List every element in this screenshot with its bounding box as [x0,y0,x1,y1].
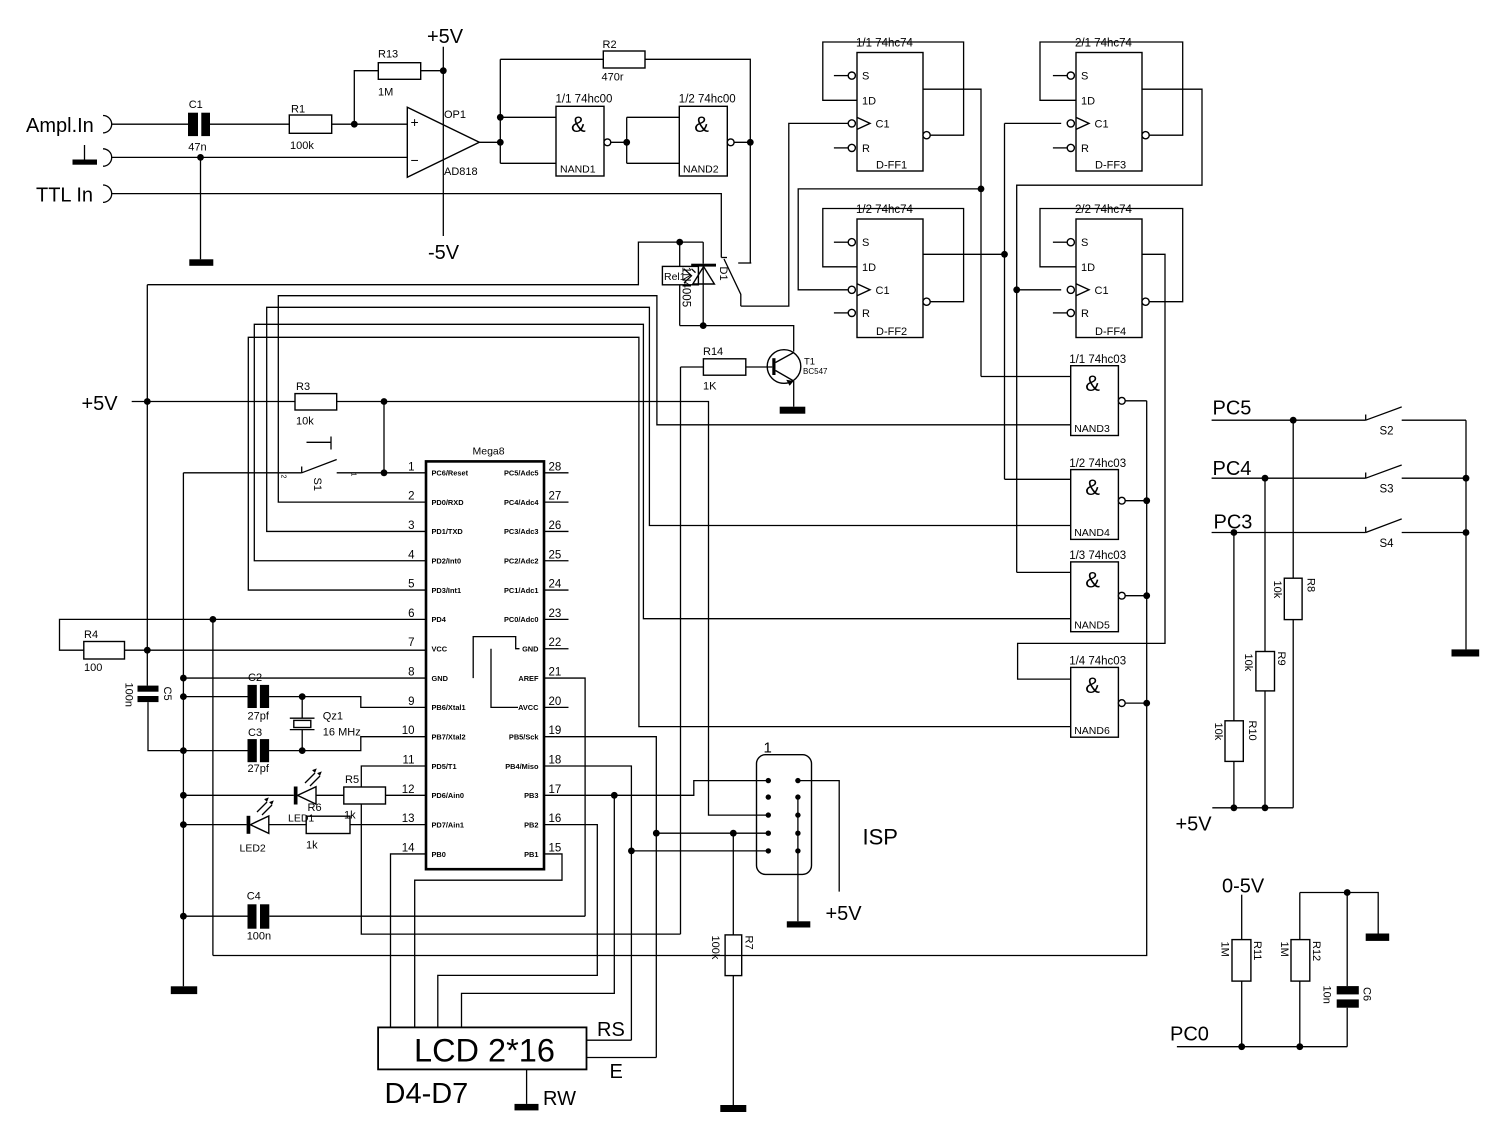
wire +5V rail to relay top [147,242,703,285]
node junction NAND2 out [747,139,754,146]
node junction reset pullup [381,398,388,405]
node E label [610,1061,623,1083]
svg-text:R: R [1081,308,1089,320]
resistor R1 100k [289,104,331,153]
svg-text:PD3/Int1: PD3/Int1 [432,586,462,595]
capacitor C4 100n [247,891,271,943]
wire PD4 vertical to NAND common [212,619,214,955]
node junction Q1 [978,186,985,193]
node junction SCK ISP [653,830,660,837]
svg-text:1/1 74hc03: 1/1 74hc03 [1069,354,1126,366]
wire NAND4 output [1125,500,1147,502]
relay Rel1 coil box [662,266,698,284]
wire C3 left to rail [183,750,247,752]
wire D-FF2 R stub [834,312,848,314]
svg-text:C1: C1 [876,118,890,130]
node PC0 label [1170,1024,1209,1046]
svg-text:GND: GND [522,645,539,654]
svg-text:10k: 10k [296,416,314,428]
svg-text:R: R [862,308,870,320]
svg-text:GND: GND [432,674,449,683]
svg-text:C3: C3 [248,727,262,739]
svg-text:9: 9 [408,696,414,708]
wire pin23 stub [544,618,569,620]
wire PC0 row [1177,1046,1347,1048]
svg-text:7: 7 [408,637,414,649]
svg-text:10k: 10k [1242,654,1254,672]
node junction NAND6 out [1143,700,1150,707]
wire PD3 pin5 bus to NAND6 input [248,337,1070,726]
svg-text:&: & [1085,567,1100,592]
ground minus input [189,259,213,266]
resistor R13 1M [378,49,421,99]
svg-text:R1: R1 [291,104,305,116]
svg-text:D-FF4: D-FF4 [1095,326,1126,338]
resistor R9 10k [1242,478,1287,808]
svg-text:100: 100 [84,662,102,674]
svg-text:14: 14 [402,842,415,854]
svg-text:PB5/Sck: PB5/Sck [509,732,539,741]
wire D-FF1 R stub [834,147,848,149]
svg-text:ISP: ISP [863,825,898,850]
svg-text:NAND6: NAND6 [1074,725,1110,737]
wire PB2 pin16 to LCD D6 [438,825,598,1028]
svg-text:PD7/Ain1: PD7/Ain1 [432,820,464,829]
transistor T1 BC547 [767,350,828,386]
wire D-FF1 Q to D-FF2 clock and NAND3 [798,89,1070,376]
wire pin27 stub [544,501,569,503]
svg-text:15: 15 [549,842,562,854]
svg-text:+5V: +5V [427,26,464,48]
svg-text:+5V: +5V [1176,814,1213,836]
node junction VCC/C5 [144,647,151,654]
gate NAND3 1/1 74hc03 [1069,354,1126,436]
svg-text:NAND2: NAND2 [683,164,719,176]
svg-text:10: 10 [402,725,415,737]
gate NAND2 1/2 74hc00 [679,94,736,177]
svg-text:C1: C1 [1095,118,1109,130]
wire minus input to op-amp [112,156,408,158]
svg-text:S2: S2 [1380,426,1394,438]
svg-text:D4-D7: D4-D7 [385,1078,469,1110]
svg-text:2/1 74hc74: 2/1 74hc74 [1075,38,1133,50]
wire LCD RW to ground [526,1069,528,1104]
svg-text:100k: 100k [709,936,721,960]
wire pin25 stub [544,560,569,562]
wire PD0 pin2 bus to NAND3 input [278,296,1070,502]
svg-text:13: 13 [402,813,415,825]
node PC5 label [1213,398,1252,420]
wire D-FF2 Q to D-FF3 clock and NAND4 [923,123,1071,479]
wire ISP right column ground [797,797,799,921]
ground LCD RW [515,1104,539,1111]
svg-text:&: & [1085,475,1100,500]
wire R2 left [500,58,603,60]
wire R3 to +5V rail right [337,402,769,816]
switch S4 [1366,519,1402,550]
svg-text:LCD 2*16: LCD 2*16 [414,1033,555,1069]
wire LCD RS [587,1039,632,1041]
svg-text:2: 2 [408,491,414,503]
node ISP label [863,825,898,850]
svg-text:R5: R5 [345,774,359,786]
svg-text:VCC: VCC [432,645,448,654]
node junction R13/+5V [440,67,447,74]
resistor R2 470r [602,39,646,84]
diode D1 1N4005 [680,242,730,326]
switch S1 reset [280,437,357,491]
svg-text:17: 17 [549,784,562,796]
svg-text:PC2/Adc2: PC2/Adc2 [504,557,539,566]
svg-text:PB4/Miso: PB4/Miso [505,762,539,771]
node junction SCK R7 [730,830,737,837]
node +5V top [427,26,464,48]
wire relay arm to D-FF1 clock [741,123,848,306]
node -5V [428,242,460,264]
node junction rail LED1 [180,792,187,799]
wire switches common to ground [1465,420,1467,649]
pin ISP left row 850.9 [766,848,771,853]
node junction MISO ISP [628,848,635,855]
wire op-amp output to NAND1 inputs [479,59,556,163]
wire pin28 stub [544,472,569,474]
svg-text:20: 20 [549,696,562,708]
svg-text:TTL In: TTL In [36,185,93,207]
svg-text:5: 5 [408,579,414,591]
display LCD 2x16 [378,1027,586,1069]
svg-text:1N4005: 1N4005 [680,267,692,307]
wire pin26 stub [544,530,569,532]
capacitor C6 10n [1321,893,1373,1047]
svg-text:PC4/Adc4: PC4/Adc4 [504,498,539,507]
svg-text:S1: S1 [311,478,323,491]
wire R14 left from PD5 [681,366,704,368]
svg-text:1/2 74hc03: 1/2 74hc03 [1069,458,1126,470]
svg-text:27pf: 27pf [248,763,270,775]
wire R14 to base [746,366,773,368]
svg-text:4: 4 [408,549,415,561]
svg-text:1M: 1M [1278,942,1290,957]
node junction Q3 [1013,286,1020,293]
wire D-FF4 feedback Qbar to 1D [1040,209,1183,302]
wire D-FF4 Q to NAND6 [1018,254,1165,679]
svg-text:C2: C2 [248,672,262,684]
wire +5V rail switches [1212,807,1293,809]
svg-text:S: S [862,237,869,249]
wire D-FF2 feedback Qbar to 1D [823,209,964,302]
node junction crystal bottom [299,747,306,754]
svg-text:PD5/T1: PD5/T1 [432,762,457,771]
node junction R1/R13 [351,121,358,128]
node junction pin1 [381,469,388,476]
svg-text:PC1/Adc1: PC1/Adc1 [504,586,539,595]
svg-text:S: S [1081,237,1088,249]
gate NAND5 1/3 74hc03 [1069,550,1126,632]
svg-text:AVCC: AVCC [518,703,539,712]
resistor R11 1M [1219,895,1264,1047]
svg-text:&: & [1085,673,1100,698]
wire C5 bottom to ground rail [148,702,183,751]
wire rail to LED2 [183,824,246,826]
svg-text:1/2 74hc00: 1/2 74hc00 [679,94,736,106]
svg-text:28: 28 [549,461,562,473]
switch S3 [1366,465,1402,496]
svg-text:R7: R7 [743,936,755,950]
microcontroller U1 Mega8 [402,446,562,870]
node junction op out [497,139,504,146]
node 0-5V label [1222,876,1265,898]
wire NAND outputs common vertical to PD4 [213,401,1147,956]
wire C1 to R1 [210,123,289,125]
svg-text:R6: R6 [308,802,322,814]
node junction S3 right [1463,475,1470,482]
svg-text:RW: RW [543,1088,576,1110]
resistor R8 10k [1271,420,1317,808]
wire D-FF4 S stub [1053,241,1067,243]
svg-text:RS: RS [597,1019,625,1041]
svg-text:24: 24 [549,579,562,591]
node TTL In label [36,185,93,207]
wire D-FF2 S stub [834,241,848,243]
wire XTAL2 pin10 to C3 [269,737,426,751]
wire PD2 pin4 bus to NAND5 input [254,324,1070,618]
wire R5 to pin12 [386,794,427,796]
wire R6 to pin13 [350,824,426,826]
node +5V ISP label [826,903,863,925]
svg-text:PC0: PC0 [1170,1024,1209,1046]
ground R12/C6 [1366,934,1390,941]
node junction MOSI D7 [611,792,618,799]
svg-text:PB1: PB1 [524,850,538,859]
wire PC5 row [1212,419,1466,421]
svg-text:1D: 1D [862,262,876,274]
svg-text:8: 8 [408,667,414,679]
wire PD4 pin6 to R4 wrap [60,619,427,650]
d-flip-flop D-FF4 2/2 74hc74 [1067,204,1149,338]
node junction PC5 R8 [1290,417,1297,424]
svg-text:100n: 100n [123,683,135,707]
resistor R14 1K [703,346,746,393]
svg-text:D-FF2: D-FF2 [876,326,907,338]
wire PC4 row [1212,477,1466,479]
node junction PD4 [210,616,217,623]
wire PB0 pin14 to LCD D4 [391,854,427,1027]
svg-text:Qz1: Qz1 [323,711,343,723]
svg-text:2/2 74hc74: 2/2 74hc74 [1075,204,1133,216]
svg-text:470r: 470r [602,72,624,84]
svg-text:LED2: LED2 [240,843,266,855]
wire relay coil vertical [679,242,681,326]
svg-text:Mega8: Mega8 [473,446,505,458]
svg-text:+5V: +5V [82,393,119,415]
gate NAND1 1/1 74hc00 [556,94,613,177]
node junction NAND1 out [623,139,630,146]
node PC3 label [1214,512,1253,534]
wire NAND3 output [1125,400,1147,402]
wire R1 to op-amp plus input [332,123,408,125]
svg-text:NAND4: NAND4 [1074,527,1110,539]
svg-text:PC5/Adc5: PC5/Adc5 [504,469,539,478]
svg-text:T1: T1 [804,357,815,368]
svg-text:+: + [411,114,419,130]
svg-text:R14: R14 [703,346,723,358]
resistor R4 100 [84,629,125,674]
resistor R5 1k [344,774,386,822]
svg-text:R4: R4 [84,629,98,641]
wire D-FF3 feedback Qbar to 1D [1040,42,1183,135]
resistor R6 1k [306,802,350,852]
wire relay bottom to transistor collector [680,326,794,352]
resistor R12 1M [1278,893,1322,1047]
wire rail to C4 [183,915,247,917]
wire PB1 pin15 to LCD D5 [415,854,562,1027]
svg-text:BC547: BC547 [803,367,828,376]
node junction rail LED2 [180,821,187,828]
pin ISP left row 815.1 [766,812,771,817]
connector J3 TTL In [103,185,112,202]
svg-text:D1: D1 [717,267,729,281]
svg-text:PB2: PB2 [524,820,538,829]
wire Ampl.In to C1 [112,123,188,125]
node junction R2 left [497,114,504,121]
svg-text:25: 25 [549,549,562,561]
ground ISP [787,921,811,927]
svg-text:PB6/Xtal1: PB6/Xtal1 [432,703,466,712]
d-flip-flop D-FF1 1/1 74hc74 [848,38,930,172]
svg-text:PD1/TXD: PD1/TXD [432,527,464,536]
LED LED1 [288,768,322,824]
node junction rail R10 [1231,804,1238,811]
capacitor C2 27pf [248,672,270,723]
svg-text:R13: R13 [378,49,398,61]
pin ISP left row 797.1 [766,794,771,799]
svg-text:PD6/Ain0: PD6/Ain0 [432,791,464,800]
svg-text:LED1: LED1 [288,813,314,825]
d-flip-flop D-FF2 1/2 74hc74 [848,204,930,338]
svg-text:&: & [694,112,709,137]
crystal Qz1 16 MHz [290,697,361,751]
node junction rail R9 [1262,804,1269,811]
node junction crystal top [299,693,306,700]
wire D-FF3 S stub [1053,75,1067,77]
svg-text:16 MHz: 16 MHz [323,727,361,739]
node junction rail C3 [180,747,187,754]
node junction +5V rail [144,398,151,405]
svg-text:11: 11 [403,755,415,767]
svg-text:PB3: PB3 [524,791,538,800]
node junction PC0 R11 [1238,1043,1245,1050]
svg-text:PC6/Reset: PC6/Reset [432,469,469,478]
op-amp OP1 AD818 [407,107,479,178]
svg-text:1D: 1D [862,95,876,107]
capacitor C5 100n [123,683,174,707]
wire PD1 pin3 bus to NAND4 input [267,307,1071,531]
relay switch contact [721,258,751,307]
svg-text:18: 18 [549,755,562,767]
svg-text:C6: C6 [1361,987,1373,1001]
svg-text:R9: R9 [1275,652,1287,666]
ground switches [1452,649,1480,656]
wire C4 to AREF vertical [269,915,585,917]
wire NAND2 out [734,141,750,143]
wire NAND6 output [1125,702,1147,704]
wire emitter to ground [793,381,795,407]
wire AVCC pin20 stub [544,706,569,708]
wire D-FF3 R stub [1053,147,1067,149]
svg-text:−: − [411,152,419,168]
resistor R3 10k [295,381,337,428]
svg-text:1: 1 [408,461,414,473]
wire PD5 pin11 to R14 [361,367,680,934]
node +5V mid label [82,393,119,415]
pin ISP left row 833.2 [766,831,771,836]
svg-text:PC5: PC5 [1213,398,1252,420]
svg-text:D-FF3: D-FF3 [1095,160,1126,172]
svg-text:+5V: +5V [826,903,863,925]
svg-text:27: 27 [549,491,562,503]
gate NAND4 1/2 74hc03 [1069,458,1126,540]
svg-text:PD4: PD4 [432,615,447,624]
node RS label [597,1019,625,1041]
node PC4 label [1213,458,1252,480]
svg-text:1K: 1K [703,381,717,393]
svg-text:R: R [862,143,870,155]
svg-text:R12: R12 [1310,941,1322,961]
svg-text:2: 2 [280,475,287,479]
svg-text:27pf: 27pf [248,711,270,723]
node junction PC4 R9 [1262,475,1269,482]
svg-text:47n: 47n [188,142,206,154]
svg-text:22: 22 [549,637,562,649]
wire LED2 to R6 [269,824,306,826]
node junction rail pin8 [180,675,187,682]
svg-text:1/1 74hc74: 1/1 74hc74 [856,38,914,50]
pin ISP right row 780.6 [795,778,800,783]
svg-text:PB0: PB0 [432,850,446,859]
svg-text:26: 26 [549,520,562,532]
wire D-FF1 S stub [834,75,848,77]
wire +5V rail to R3 [132,401,295,403]
wire GND pin8 row [183,677,426,679]
svg-text:PD2/Int0: PD2/Int0 [432,557,462,566]
svg-text:PB7/Xtal2: PB7/Xtal2 [432,732,466,741]
svg-text:PD0/RXD: PD0/RXD [432,498,465,507]
svg-text:NAND1: NAND1 [560,164,596,176]
node +5V switches label [1176,814,1213,836]
node junction NAND4 out [1143,497,1150,504]
node junction S4 right [1463,529,1470,536]
svg-text:1M: 1M [378,87,393,99]
svg-text:S: S [862,71,869,83]
wire NAND1 out to NAND2 inputs [611,117,680,163]
svg-text:S3: S3 [1380,484,1394,496]
svg-text:C1: C1 [1095,285,1109,297]
wire XTAL1 pin9 to C2 [269,697,426,708]
wire rail to LED1 [183,794,293,796]
wire AREF pin21 to C4 line [544,678,585,916]
node junction PC0 R12 [1296,1043,1303,1050]
connector J2 minus input [103,149,112,166]
svg-text:PC4: PC4 [1213,458,1252,480]
resistor R7 100k [709,833,755,1105]
wire R2 right to NAND2 output node [645,59,750,263]
svg-text:100k: 100k [290,140,314,152]
svg-text:R2: R2 [603,39,617,51]
ground input shell [73,145,98,165]
node junction C6 top [1344,889,1351,896]
svg-text:C4: C4 [247,891,261,903]
pin ISP left row 780.6 [766,778,771,783]
